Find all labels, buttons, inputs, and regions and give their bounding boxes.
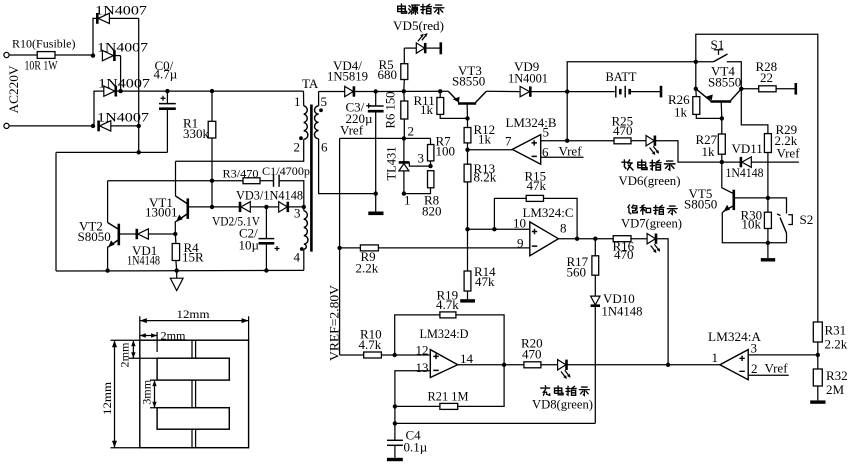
wire BATT node down to pin5 <box>566 92 568 141</box>
core top window <box>157 358 229 380</box>
svg-text:9: 9 <box>517 236 524 251</box>
wire VD6 to VD11 row <box>655 141 722 162</box>
svg-text:3mm: 3mm <box>140 379 154 405</box>
wire BATT node up to S1 line <box>567 62 696 92</box>
svg-text:1N5819: 1N5819 <box>327 68 368 83</box>
svg-text:S8550: S8550 <box>708 74 741 89</box>
svg-text:12mm: 12mm <box>100 381 114 415</box>
svg-text:2.2k: 2.2k <box>356 261 379 276</box>
svg-text:2mm: 2mm <box>161 328 187 342</box>
TL431 <box>403 138 405 161</box>
dim 2mm left small <box>129 340 158 358</box>
opamp LM324:B <box>512 135 540 165</box>
wire R10 to bridge <box>55 54 93 56</box>
resistor R11 1k <box>438 89 442 93</box>
label charging indicator CJK <box>541 386 550 396</box>
svg-text:560: 560 <box>567 264 587 279</box>
svg-text:10: 10 <box>513 215 526 230</box>
diode D2 1N4007 <box>102 50 113 60</box>
rail DC+ y91 <box>121 90 304 92</box>
label saturation indicator CJK <box>628 205 637 214</box>
core bottom center slot <box>192 429 196 448</box>
svg-text:1k: 1k <box>674 104 688 119</box>
svg-text:2M: 2M <box>826 382 845 397</box>
label discharge indicator CJK <box>622 160 633 170</box>
wire VD7 loop down <box>656 239 668 365</box>
terminal AC L <box>4 52 9 57</box>
wire Vref vertical <box>339 138 341 355</box>
wire bridge left top <box>93 18 97 55</box>
diode VD2 5.1V zener <box>212 206 239 208</box>
wire rowA base feed <box>108 180 243 182</box>
dim 3mm mid <box>150 380 157 408</box>
svg-text:2mm: 2mm <box>117 342 131 368</box>
diode VD1 1N4148 <box>120 233 137 235</box>
svg-text:R6 150: R6 150 <box>383 92 398 129</box>
dim 12mm left <box>111 340 140 448</box>
resistor R10 <box>37 52 55 59</box>
svg-text:10µ: 10µ <box>239 238 260 253</box>
svg-text:TL431: TL431 <box>384 147 399 181</box>
svg-text:Vref: Vref <box>765 361 789 376</box>
resistor R15 47k feedback <box>494 198 526 229</box>
dim 2mm top <box>140 332 157 352</box>
LED VD5 red power indicator <box>404 47 416 49</box>
TA winding 3-4 <box>303 207 305 211</box>
ground primary triangle <box>176 271 178 279</box>
diode VD11 1N4148 <box>722 161 740 163</box>
svg-text:R21 1M: R21 1M <box>428 388 469 403</box>
transistor VT4 S8550 <box>696 89 712 102</box>
svg-text:1N4148: 1N4148 <box>127 253 160 268</box>
node bridge plus dot <box>118 89 122 93</box>
svg-text:LM324:B: LM324:B <box>506 115 557 130</box>
node pin10 dot <box>465 227 469 231</box>
ground bar R14 <box>460 299 475 302</box>
rail DC- y152 <box>56 151 167 153</box>
svg-text:47k: 47k <box>475 274 495 289</box>
secondary rail <box>319 91 345 93</box>
svg-text:VD11: VD11 <box>732 141 763 156</box>
diode VD10 1N4148 <box>591 296 600 305</box>
node AC-L dot <box>91 53 95 57</box>
wire pin6 down to gnd row <box>319 139 376 194</box>
svg-text:3: 3 <box>418 151 425 166</box>
opamp LM324:C <box>530 222 559 256</box>
svg-text:VREF=2.80V: VREF=2.80V <box>327 284 342 361</box>
svg-text:AC220V: AC220V <box>6 65 21 114</box>
svg-text:13: 13 <box>416 360 429 375</box>
core top center slot <box>192 340 196 358</box>
svg-text:13001: 13001 <box>145 204 178 219</box>
svg-text:Vref: Vref <box>777 145 801 160</box>
switch S2 <box>768 198 787 214</box>
wire pin6 Vref stub <box>541 156 584 158</box>
svg-text:14: 14 <box>460 351 474 366</box>
wire N to bridge <box>9 125 93 127</box>
svg-text:12mm: 12mm <box>177 307 211 321</box>
diode D3 1N4007 <box>94 91 104 126</box>
svg-text:7: 7 <box>505 134 512 149</box>
svg-text:S2: S2 <box>800 212 814 227</box>
svg-text:S8050: S8050 <box>684 196 717 211</box>
node R9 dot <box>337 246 341 250</box>
node pin12 dot <box>393 353 397 357</box>
resistor R3 470 <box>243 178 260 184</box>
resistor R1 330k <box>210 89 214 93</box>
wire VD10 bottom row to pin13 node <box>395 422 595 424</box>
svg-text:VD5(red): VD5(red) <box>393 18 444 33</box>
svg-text:S8050: S8050 <box>78 229 111 244</box>
switch S1 <box>696 61 714 63</box>
node pin3 dot <box>302 205 306 209</box>
wire Vref to R10 <box>340 354 364 356</box>
resistor R7 100 <box>430 138 432 144</box>
dim 12mm top <box>140 316 249 340</box>
wire pin14 output row <box>458 364 524 366</box>
wire pin7 output <box>468 149 513 151</box>
svg-text:4: 4 <box>294 249 301 264</box>
svg-text:1N4148: 1N4148 <box>726 165 764 180</box>
diode VD3 1N4148 <box>266 206 278 208</box>
svg-text:1k: 1k <box>420 102 434 117</box>
svg-text:1k: 1k <box>478 131 492 146</box>
svg-text:BATT: BATT <box>606 69 637 84</box>
wire pin3 <box>748 354 818 356</box>
svg-text:1k: 1k <box>702 144 716 159</box>
svg-text:8: 8 <box>560 221 567 236</box>
svg-text:15R: 15R <box>182 250 204 265</box>
resistor R14 47k <box>467 229 469 271</box>
core mid center slot <box>192 380 196 408</box>
svg-text:C1/4700p: C1/4700p <box>262 164 310 178</box>
node BATT+ dot <box>565 89 569 93</box>
transistor VT1 13001 <box>187 198 190 219</box>
resistor R17 560 <box>594 239 596 256</box>
battery BATT <box>615 86 617 98</box>
core drawing outer square <box>140 340 249 448</box>
svg-text:5: 5 <box>321 94 328 109</box>
LED VD7 green saturation <box>647 234 655 244</box>
svg-text:2: 2 <box>294 139 301 154</box>
capacitor C1 4700p <box>273 175 275 187</box>
svg-text:6: 6 <box>321 139 328 154</box>
svg-text:VD3/1N4148: VD3/1N4148 <box>236 188 303 203</box>
resistor R16 470 <box>613 236 631 242</box>
svg-text:470: 470 <box>613 123 633 138</box>
ground bar C4 <box>387 458 403 461</box>
resistor R19 4.7k feedback <box>395 315 440 355</box>
capacitor C3 220u <box>374 89 378 93</box>
resistor R20 470 <box>524 362 541 368</box>
svg-text:3: 3 <box>751 341 758 356</box>
ground bar VT5 <box>767 243 769 258</box>
wire VD8 to LM324:A <box>567 364 720 366</box>
ground bar R32 <box>810 400 825 403</box>
svg-text:3: 3 <box>294 206 301 221</box>
wire pin10 <box>468 228 530 230</box>
wire pin2 Vref stub <box>748 374 789 376</box>
node VT5 collector dot <box>766 196 770 200</box>
capacitor C0 4.7u <box>165 89 169 93</box>
wire VT4 emitter node <box>695 62 697 89</box>
svg-text:LM324:C: LM324:C <box>523 205 574 220</box>
svg-text:1N4001: 1N4001 <box>508 71 548 86</box>
svg-text:5: 5 <box>543 124 550 139</box>
diode D4 1N4007 <box>97 121 100 132</box>
svg-text:10k: 10k <box>742 217 762 232</box>
resistor R28 22 <box>741 88 758 90</box>
node 2 row <box>340 137 431 139</box>
LED VD8 green charging <box>558 360 566 370</box>
resistor R31 2.2k <box>813 322 822 342</box>
svg-text:1: 1 <box>294 94 301 109</box>
primary ground rail <box>56 269 304 272</box>
resistor R25 470 <box>567 140 614 142</box>
svg-text:10R 1W: 10R 1W <box>25 58 59 73</box>
svg-text:330k: 330k <box>183 126 210 141</box>
node VT1 base dot <box>210 205 214 209</box>
svg-text:VD8(green): VD8(green) <box>532 397 593 412</box>
svg-text:8.2k: 8.2k <box>474 169 497 184</box>
svg-text:47k: 47k <box>527 178 547 193</box>
node VT3 base dot <box>465 116 469 120</box>
diode VD9 1N4001 <box>520 86 529 96</box>
svg-text:4.7k: 4.7k <box>436 297 459 312</box>
svg-text:1N4007: 1N4007 <box>97 110 150 125</box>
node AC-N dot <box>91 124 95 128</box>
LED VD6 green discharge <box>646 136 654 146</box>
terminal AC N <box>4 123 9 128</box>
resistor R27 1k <box>721 118 723 134</box>
node 3 dot <box>428 164 432 168</box>
resistor R10 4.7k <box>364 352 382 358</box>
svg-text:1N4007: 1N4007 <box>95 3 148 18</box>
diode D1 1N4007 <box>96 13 99 24</box>
svg-text:VD6(green): VD6(green) <box>619 173 681 188</box>
svg-text:S1: S1 <box>711 37 725 52</box>
opamp LM324:D <box>430 350 457 378</box>
svg-text:470: 470 <box>614 247 634 262</box>
svg-text:R31: R31 <box>825 322 847 337</box>
wire pin8 output row <box>558 238 613 240</box>
svg-text:2: 2 <box>751 361 758 376</box>
wire L to R10 <box>9 54 37 56</box>
resistor R12 1k <box>464 128 471 143</box>
capacitor C2 10u <box>265 207 267 239</box>
diode VD4 1N5819 <box>345 86 354 96</box>
wire pin5 <box>541 140 568 142</box>
svg-text:680: 680 <box>378 67 398 82</box>
svg-text:1N4148: 1N4148 <box>602 304 643 319</box>
capacitor C4 0.1u <box>394 423 396 440</box>
wire collector to VD9 <box>486 90 520 92</box>
resistor R32 2M <box>813 369 822 386</box>
wire pin13 <box>395 371 430 424</box>
resistor R5 680 <box>402 89 406 93</box>
resistor R21 1M feedback <box>395 405 440 407</box>
wire VT1 collector to pin2 <box>176 139 304 161</box>
svg-text:S8550: S8550 <box>452 73 485 88</box>
resistor R6 150 <box>403 91 406 101</box>
svg-text:1N4007: 1N4007 <box>98 76 151 91</box>
svg-text:22: 22 <box>760 70 773 85</box>
wire left drop <box>55 152 57 271</box>
wire pin12 <box>395 354 431 356</box>
transistor VT5 S8050 <box>722 162 734 194</box>
resistor R29 2.2k <box>741 89 768 134</box>
resistor R9 2.2k <box>340 247 361 249</box>
svg-text:R32: R32 <box>826 368 848 383</box>
svg-text:Vref: Vref <box>340 123 364 138</box>
svg-text:4.7k: 4.7k <box>359 337 382 352</box>
transistor VT2 S8050 <box>118 224 121 246</box>
svg-text:R3/470: R3/470 <box>223 167 259 181</box>
svg-text:1N4007: 1N4007 <box>97 40 149 55</box>
core bottom window <box>157 408 229 430</box>
label power indicator CJK <box>398 4 407 13</box>
TA core bar <box>310 105 313 252</box>
node C2 top dot <box>264 205 268 209</box>
transistor VT3 S8550 <box>448 91 459 102</box>
ground bar C3 <box>368 212 383 216</box>
node TL431 gnd row dot <box>374 191 378 195</box>
svg-text:470: 470 <box>522 346 542 361</box>
wire base column <box>211 181 213 207</box>
svg-text:2: 2 <box>408 123 415 138</box>
svg-text:2.2k: 2.2k <box>825 336 848 351</box>
resistor R8 820 <box>428 171 434 188</box>
svg-text:820: 820 <box>422 203 442 218</box>
svg-text:Vref: Vref <box>559 143 583 158</box>
wire top-right loop <box>696 34 818 322</box>
resistor R4 15R <box>172 244 179 261</box>
svg-text:4.7µ: 4.7µ <box>154 67 178 82</box>
svg-text:LM324:D: LM324:D <box>420 326 469 341</box>
wire bridge right column <box>138 18 140 152</box>
svg-text:0.1µ: 0.1µ <box>404 439 428 454</box>
svg-text:1: 1 <box>712 350 719 365</box>
resistor R26 1k <box>695 89 698 97</box>
svg-text:TA: TA <box>302 76 319 91</box>
opamp LM324:A <box>720 350 748 380</box>
resistor R13 8.2k <box>464 164 471 182</box>
svg-text:100: 100 <box>436 144 456 159</box>
TA winding 1-2 <box>303 91 305 106</box>
svg-text:R10(Fusible): R10(Fusible) <box>12 36 76 50</box>
resistor R30 10k <box>767 198 769 212</box>
node VD1-R4 dot <box>173 232 177 236</box>
TA winding 5-6 <box>318 91 320 106</box>
svg-text:VD7(green): VD7(green) <box>621 215 682 230</box>
